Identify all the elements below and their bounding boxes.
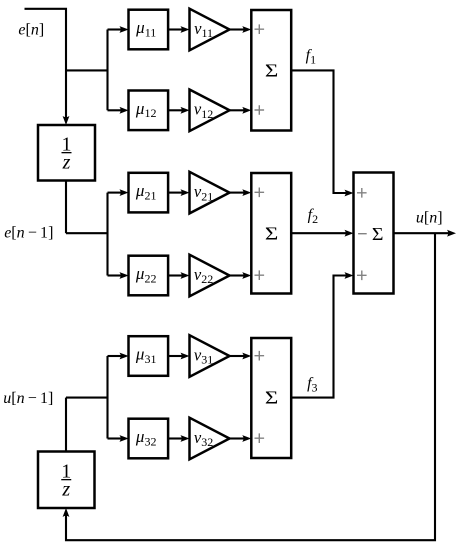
wire group-3 split vertical (106, 356, 108, 439)
block MU31 (mu_31 coefficient) (129, 336, 169, 376)
wire nu31 to summer S3 top input (230, 353, 252, 360)
block MU32 (mu_32 coefficient) (129, 419, 169, 459)
block Z1 (1/z unit delay) (38, 125, 95, 181)
block MU22 (mu_22 coefficient) (129, 256, 169, 296)
svg-text:z: z (62, 151, 71, 173)
wire feedback from u[n] down, along bottom, up into delay Z2 (63, 233, 435, 540)
minus sign S4 input f2 (358, 233, 367, 235)
summer S1 (sigma box, f1) (251, 10, 291, 131)
svg-text:e[n − 1]: e[n − 1] (4, 225, 53, 242)
label 1/z of Z2 (61, 461, 71, 501)
svg-text:z: z (61, 478, 70, 500)
wire mu32 to nu32 (168, 435, 190, 442)
wire Z2 output up to u[n-1] node (65, 398, 67, 452)
plus sign S4 input f1 (357, 188, 367, 198)
block MU11 (mu_11 coefficient) (129, 10, 169, 50)
wire e[n] input: top horizontal then down into delay Z1 (25, 9, 70, 125)
wire branch from e[n] line to group-1 split (66, 69, 108, 71)
gain NU22 (nu_22 amplifier triangle) (190, 255, 230, 297)
svg-text:f1: f1 (306, 47, 316, 66)
svg-text:u[n − 1]: u[n − 1] (3, 390, 53, 407)
gain NU11 (nu_11 amplifier triangle) (190, 9, 230, 51)
wire into mu22 (108, 272, 129, 279)
wire into mu31 (108, 353, 129, 360)
wire u[n-1] to group-3 split (66, 397, 108, 399)
plus sign S3 top input (255, 351, 265, 361)
summer S3 (sigma box, f3) (251, 338, 291, 458)
plus sign S2 top input (255, 188, 265, 198)
wire mu11 to nu11 (168, 26, 190, 33)
plus sign S4 input f3 (357, 271, 367, 281)
wire nu12 to summer S1 bottom input (230, 107, 252, 114)
wire mu31 to nu31 (168, 353, 190, 360)
wire e[n-1] to group-2 split (66, 232, 108, 234)
plus sign S3 bottom input (255, 433, 265, 443)
svg-text:f2: f2 (308, 207, 318, 226)
label 1/z of Z1 (62, 134, 72, 174)
gain NU31 (nu_31 amplifier triangle) (190, 335, 230, 377)
wire f1 from S1 to final summer plus input (291, 70, 353, 196)
block Z2 (1/z unit delay) (38, 452, 95, 509)
gain NU12 (nu_12 amplifier triangle) (190, 90, 230, 132)
gain NU21 (nu_21 amplifier triangle) (190, 172, 230, 214)
wire group-1 split vertical (106, 30, 108, 111)
wire into mu21 (108, 189, 129, 196)
svg-text:e[n]: e[n] (18, 22, 44, 39)
svg-text:Σ: Σ (372, 224, 384, 244)
wire Z1 output down to e[n-1] node (65, 181, 67, 234)
svg-text:Σ: Σ (265, 388, 278, 408)
plus sign S2 bottom input (255, 270, 265, 280)
block MU12 (mu_12 coefficient) (129, 91, 169, 131)
wire nu21 to summer S2 top input (230, 189, 252, 196)
wire group-2 split vertical (106, 193, 108, 276)
wire u[n] output (394, 230, 457, 237)
svg-text:f3: f3 (307, 375, 317, 394)
wire mu22 to nu22 (168, 272, 190, 279)
wire nu32 to summer S3 bottom input (230, 435, 252, 442)
wire nu11 to summer S1 top input (230, 26, 252, 33)
wire f2 from S2 to final summer minus input (291, 230, 353, 237)
gain NU32 (nu_32 amplifier triangle) (190, 418, 230, 460)
svg-text:u[n]: u[n] (416, 209, 443, 226)
wire mu12 to nu12 (168, 107, 190, 114)
wire into mu12 (108, 107, 129, 114)
wire mu21 to nu21 (168, 189, 190, 196)
svg-text:Σ: Σ (265, 223, 278, 243)
wire into mu32 (108, 435, 129, 442)
wire f3 from S3 up to final summer plus input (291, 272, 353, 398)
wire into mu11 (108, 26, 129, 33)
block MU21 (mu_21 coefficient) (129, 173, 169, 213)
svg-text:Σ: Σ (265, 61, 278, 81)
final summer S4 (output sigma box) (354, 173, 394, 294)
summer S2 (sigma box, f2) (251, 173, 291, 294)
plus sign S1 top input (255, 24, 265, 34)
wire nu22 to summer S2 bottom input (230, 272, 252, 279)
plus sign S1 bottom input (255, 105, 265, 115)
